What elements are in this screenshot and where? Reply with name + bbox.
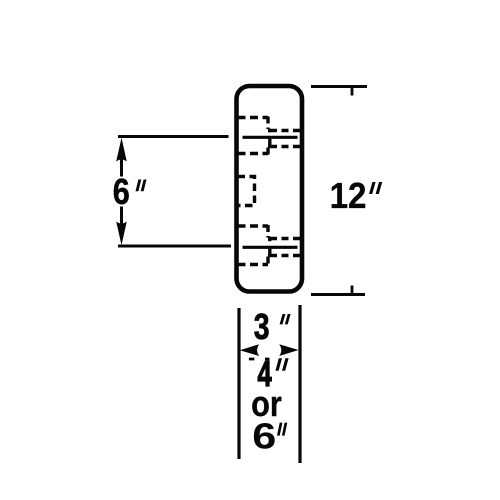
label 6 inch (left) [113,173,130,213]
svg-text:6: 6 [113,173,130,213]
label 6 inch (bottom) [252,417,276,457]
double prime for 4 [275,358,288,371]
top pin hidden outline (big dashed square) [238,117,269,155]
label 4 inch [258,354,273,394]
6-inch dimension vertical line (upper segment) [120,158,123,177]
svg-text:12: 12 [330,177,367,217]
width dimension: left extension line [237,308,240,459]
12-inch dimension: top extension line [311,85,367,88]
6-inch down arrowhead [116,222,127,246]
6-inch dimension: bottom reference line [118,245,231,248]
width dimension: right extension line [298,305,301,463]
12-inch top tick [351,87,354,96]
label 12 inch [330,177,367,217]
double prime for 12 [369,182,382,194]
width dimension right arrowhead [279,344,298,356]
dashes between arrowheads [249,358,270,361]
svg-text:3: 3 [254,307,270,347]
body outline rounded rectangle [237,86,303,292]
double prime for 3 [280,314,291,324]
label or [251,385,282,425]
middle small dashed square [238,177,255,206]
svg-text:6: 6 [252,417,276,457]
6-inch up arrowhead [116,138,127,162]
12-inch dimension: bottom extension line [311,293,365,296]
top pin centerline [243,136,298,139]
width dimension left arrowhead [240,344,259,356]
12-inch bottom tick [351,286,354,295]
6-inch dimension vertical line (lower segment) [120,207,123,225]
top pin protrusion dashed lines [268,129,302,147]
bottom pin centerline [243,246,298,249]
bottom pin protrusion dashed lines [268,237,302,256]
label 3 inch [254,307,270,347]
6-inch dimension: top reference line [118,135,229,138]
bottom pin hidden outline (big dashed square) [238,225,269,266]
double prime for bottom 6 [277,423,287,436]
double prime for left 6 [136,180,147,192]
